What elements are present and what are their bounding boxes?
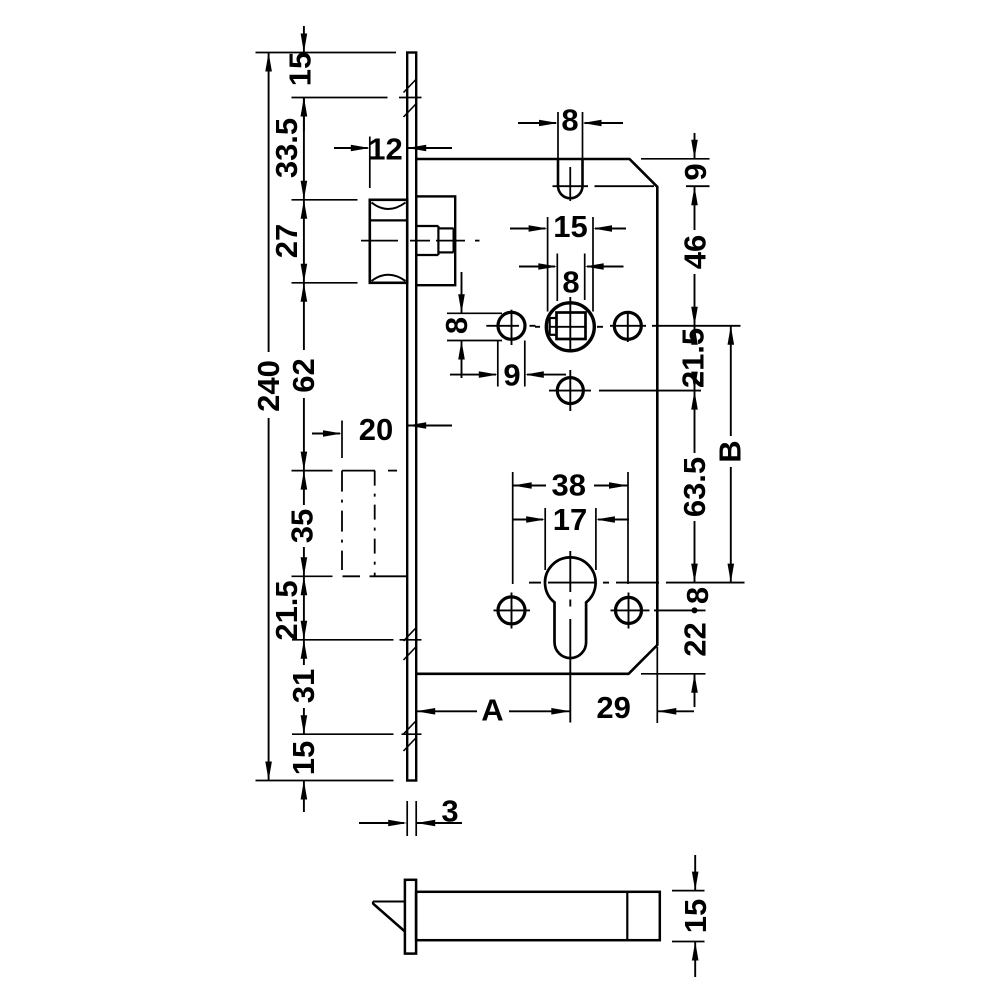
euro profile cylinder hole: [545, 557, 596, 658]
lower left screw hole: [494, 593, 531, 629]
dimension 38: [513, 468, 628, 585]
dimension 9 hole horizontal: [450, 341, 566, 393]
svg-text:46: 46: [678, 235, 713, 269]
svg-text:15: 15: [286, 741, 321, 775]
svg-text:3: 3: [441, 794, 458, 829]
dimension 8 cylinder offset with dot: [680, 587, 715, 614]
svg-text:17: 17: [553, 502, 587, 537]
svg-text:A: A: [481, 693, 503, 728]
dimension 27: [269, 200, 307, 283]
svg-text:12: 12: [368, 132, 402, 167]
svg-text:8: 8: [561, 103, 578, 138]
dimension 15 top: [283, 26, 318, 131]
dimension 15 follower: [510, 209, 626, 312]
cylinder vertical centre line: [569, 551, 571, 723]
right extension lines: [641, 673, 706, 675]
svg-text:22: 22: [678, 622, 713, 656]
svg-text:62: 62: [286, 358, 321, 392]
dimension 21.5 right: [676, 326, 711, 391]
svg-text:B: B: [713, 440, 748, 462]
follower hole with square: [546, 303, 594, 351]
dimension 31: [286, 640, 321, 734]
lock body outline: [416, 159, 657, 674]
dimension 33.5: [269, 98, 307, 200]
dimension 63.5: [677, 391, 712, 583]
dimension 20: [312, 412, 452, 458]
dimension 8 hole vertical: [439, 272, 502, 378]
svg-text:15: 15: [283, 52, 318, 86]
dimension A: [416, 693, 570, 728]
dimension 62: [286, 283, 321, 471]
side view latch bolt body: [416, 892, 660, 940]
svg-text:33.5: 33.5: [269, 118, 304, 178]
svg-text:240: 240: [251, 360, 286, 412]
latch centre line: [361, 240, 480, 242]
svg-text:15: 15: [678, 899, 713, 933]
top slot centre lines: [553, 167, 710, 201]
svg-text:21.5: 21.5: [269, 580, 304, 640]
follower centre lines: [535, 297, 603, 353]
dimension 240 overall: [251, 53, 286, 781]
upper right screw hole: [610, 312, 741, 342]
faceplate front view: [407, 53, 416, 781]
lower middle hole: [549, 370, 701, 411]
dimension 46: [678, 186, 713, 326]
latch bolt front view: [370, 200, 407, 283]
dimension 21.5 left: [269, 576, 307, 640]
side view faceplate section: [405, 880, 416, 954]
svg-text:29: 29: [596, 690, 630, 725]
dimension 8 follower square: [519, 254, 624, 302]
dimension 3 faceplate thickness: [359, 794, 462, 837]
svg-text:9: 9: [678, 163, 713, 180]
svg-text:15: 15: [553, 209, 587, 244]
cylinder horizontal centre line: [529, 582, 745, 584]
top slot cutout: [558, 159, 583, 198]
svg-text:35: 35: [285, 509, 320, 543]
dimension B: [713, 326, 748, 583]
svg-text:8: 8: [439, 317, 474, 334]
svg-text:8: 8: [680, 587, 715, 604]
dimension 17: [512, 502, 629, 570]
faceplate break hatch ticks: [404, 79, 417, 752]
dimension 9 top right: [641, 133, 713, 181]
svg-text:8: 8: [562, 265, 579, 300]
svg-text:63.5: 63.5: [677, 457, 712, 517]
dimension 22: [678, 622, 713, 707]
dimension 15 bottom left: [286, 741, 321, 812]
latch tail inside body: [416, 196, 455, 285]
hidden pocket dashed outline: [342, 471, 408, 577]
svg-text:20: 20: [359, 412, 393, 447]
left extension lines: [256, 53, 422, 781]
svg-text:9: 9: [503, 357, 520, 392]
dimension 15 side view: [672, 855, 713, 977]
svg-text:38: 38: [552, 468, 586, 503]
svg-text:31: 31: [286, 669, 321, 703]
dimension 8 top slot: [518, 103, 623, 187]
svg-text:21.5: 21.5: [676, 328, 711, 388]
upper left screw hole: [486, 310, 535, 345]
dimension 35: [285, 471, 320, 577]
svg-text:27: 27: [269, 224, 304, 258]
dimension 12 latch: [334, 132, 452, 189]
lower right screw hole: [611, 593, 706, 629]
dimension 29: [596, 647, 694, 725]
side view latch bevel tip: [373, 902, 405, 932]
